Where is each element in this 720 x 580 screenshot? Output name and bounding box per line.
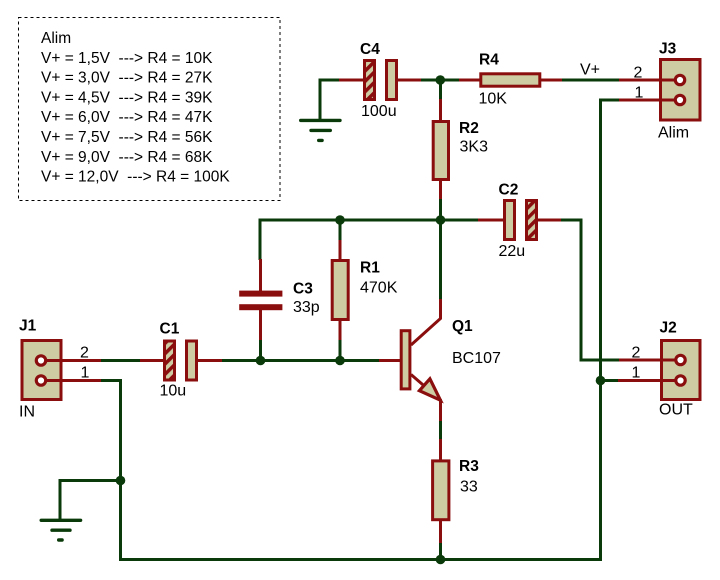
transistor Q1 base bar xyxy=(401,331,410,389)
svg-text:Q1: Q1 xyxy=(452,318,473,335)
svg-text:OUT: OUT xyxy=(659,402,693,419)
transistor Q1 collector lead xyxy=(411,299,441,345)
node B junction dot xyxy=(436,215,446,225)
connector J3 body xyxy=(661,60,701,121)
svg-text:R3: R3 xyxy=(459,458,479,475)
resistor R3 pin top xyxy=(439,439,442,461)
svg-text:1: 1 xyxy=(81,365,90,382)
wire node E to J2 pin 1 xyxy=(601,379,619,382)
capacitor C1 plate - xyxy=(187,341,197,380)
svg-text:BC107: BC107 xyxy=(452,350,501,367)
wire C1 to Q1 base xyxy=(221,359,380,362)
capacitor C3 plate top xyxy=(239,291,282,297)
connector J3 pin 2 lead xyxy=(619,79,680,82)
node R1-bottom junction dot xyxy=(335,356,345,366)
svg-text:V+ = 3,0V ---> R4 = 27K: V+ = 3,0V ---> R4 = 27K xyxy=(41,70,213,87)
resistor R2 pin top xyxy=(439,99,442,122)
svg-text:C1: C1 xyxy=(160,321,180,338)
node J1-ground junction dot xyxy=(116,476,126,486)
connector J1 pin 1 lead xyxy=(41,379,101,382)
svg-text:J3: J3 xyxy=(659,41,677,58)
capacitor C1 pin right xyxy=(197,359,222,362)
svg-text:V+ = 1,5V ---> R4 = 10K: V+ = 1,5V ---> R4 = 10K xyxy=(41,50,213,67)
wire J1 pin2 to C1 xyxy=(101,359,141,362)
svg-text:1: 1 xyxy=(632,365,641,382)
capacitor C2 pin right xyxy=(537,219,561,222)
svg-text:V+ = 12,0V ---> R4 = 100K: V+ = 12,0V ---> R4 = 100K xyxy=(41,169,230,186)
connector J1 pad 1 xyxy=(36,376,45,385)
wire R4 to J3 pin 2 (V+ net) xyxy=(561,79,620,82)
svg-text:R4: R4 xyxy=(479,52,499,69)
node R3-ground junction dot xyxy=(436,555,446,565)
connector J2 pad 2 xyxy=(676,355,685,364)
wire node B down to Q1 collector xyxy=(439,220,442,300)
svg-text:C4: C4 xyxy=(360,41,380,58)
capacitor C4 plate - xyxy=(387,61,397,100)
svg-text:C2: C2 xyxy=(499,182,519,199)
svg-text:2: 2 xyxy=(634,65,643,82)
svg-text:2: 2 xyxy=(80,345,89,362)
capacitor C1 pin left xyxy=(140,359,164,362)
svg-text:Alim: Alim xyxy=(41,30,71,47)
svg-text:V+ = 9,0V ---> R4 = 68K: V+ = 9,0V ---> R4 = 68K xyxy=(41,149,213,166)
resistor R4 body xyxy=(481,74,540,86)
wire Q1 emitter to R3 xyxy=(439,420,442,440)
wire R1 bottom stub xyxy=(339,339,342,361)
wire C2 right to J2 pin 2 xyxy=(560,220,620,360)
capacitor C2 pin left xyxy=(478,219,504,222)
svg-text:33p: 33p xyxy=(293,299,320,316)
wire C3 bottom stub xyxy=(259,339,262,361)
resistor R1 pin bottom xyxy=(339,319,342,340)
svg-text:V+: V+ xyxy=(580,62,600,79)
svg-text:10K: 10K xyxy=(479,91,508,108)
capacitor C3 pin top xyxy=(259,259,262,292)
svg-text:V+ = 6,0V ---> R4 = 47K: V+ = 6,0V ---> R4 = 47K xyxy=(41,109,213,126)
capacitor C2 plate - xyxy=(505,201,515,240)
svg-text:Alim: Alim xyxy=(658,125,689,142)
connector J1 pad 2 xyxy=(36,356,45,365)
resistor R2 pin bottom xyxy=(439,180,442,199)
svg-text:R1: R1 xyxy=(360,260,380,277)
wire node A to R4 xyxy=(440,79,460,82)
svg-text:R2: R2 xyxy=(459,120,479,137)
connector J1 pin 2 lead xyxy=(41,359,101,362)
connector J2 pin 1 lead xyxy=(618,379,681,382)
svg-text:J2: J2 xyxy=(660,320,677,337)
wire J1 ground branch xyxy=(60,481,121,520)
transistor Q1 emitter arrow xyxy=(419,379,440,400)
connector J3 pin 1 lead xyxy=(619,99,680,102)
node C3-bottom junction dot xyxy=(256,356,266,366)
resistor R3 body xyxy=(433,461,449,520)
resistor R3 pin bottom xyxy=(439,520,442,543)
info box (dashed) xyxy=(19,18,281,201)
resistor R1 pin top xyxy=(339,240,342,261)
svg-text:470K: 470K xyxy=(360,280,398,297)
svg-text:V+ = 7,5V ---> R4 = 56K: V+ = 7,5V ---> R4 = 56K xyxy=(41,129,213,146)
wire middle rail C3 corner to C2 xyxy=(260,220,479,260)
capacitor C3 pin bottom xyxy=(259,309,262,340)
svg-text:22u: 22u xyxy=(499,243,526,260)
svg-text:1: 1 xyxy=(635,85,644,102)
svg-text:C3: C3 xyxy=(293,281,313,298)
svg-text:V+ = 4,5V ---> R4 = 39K: V+ = 4,5V ---> R4 = 39K xyxy=(41,89,213,106)
svg-text:100u: 100u xyxy=(361,103,397,120)
capacitor C1 plate + (hatched) xyxy=(165,341,175,380)
resistor R4 pin right xyxy=(540,79,562,82)
capacitor C4 plate + (hatched) xyxy=(365,61,375,100)
wire R1 top stub xyxy=(339,219,342,241)
wire J3 pin1 down right side, bottom ground rail, up to J1 pin 1 xyxy=(101,100,619,560)
wire R2 bottom to node B xyxy=(439,198,442,221)
svg-text:IN: IN xyxy=(19,404,35,421)
svg-text:2: 2 xyxy=(632,345,641,362)
svg-text:J1: J1 xyxy=(19,318,37,335)
wire node A to R2 xyxy=(439,80,442,100)
connector J2 pin 2 lead xyxy=(619,359,681,362)
node J2-pin1 junction dot xyxy=(596,376,606,386)
resistor R4 pin left xyxy=(459,79,482,82)
connector J3 pad 2 xyxy=(675,75,684,84)
wire ground to C4 xyxy=(320,80,341,120)
transistor Q1 emitter lead xyxy=(411,375,441,422)
ground (near J1) xyxy=(41,520,80,540)
transistor Q1 base pin xyxy=(379,359,401,362)
ground (top, near C4) xyxy=(301,120,340,140)
connector J3 pad 1 xyxy=(675,95,684,104)
connector J1 body xyxy=(22,341,61,400)
connector J2 body xyxy=(662,341,701,400)
svg-text:33: 33 xyxy=(460,479,478,496)
node R1-top junction dot xyxy=(335,215,345,225)
wire C4 right to node A xyxy=(420,79,441,82)
capacitor C4 pin right xyxy=(397,79,421,82)
resistor R1 body xyxy=(332,261,348,320)
resistor R2 body xyxy=(433,122,448,180)
svg-text:10u: 10u xyxy=(160,383,187,400)
capacitor C4 pin left xyxy=(339,79,364,82)
node A junction dot xyxy=(436,75,446,85)
wire R3 bottom to ground rail xyxy=(439,542,442,560)
svg-text:3K3: 3K3 xyxy=(460,139,489,156)
capacitor C2 plate + (hatched) xyxy=(527,201,537,240)
connector J2 pad 1 xyxy=(676,376,685,385)
capacitor C3 plate bottom xyxy=(239,304,282,310)
